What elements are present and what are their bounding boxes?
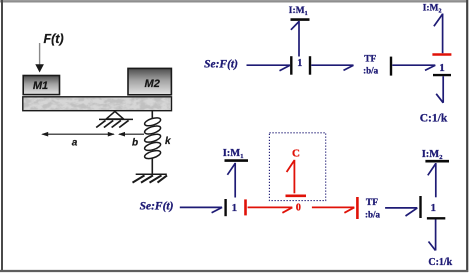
svg-text:k: k [165,136,171,147]
half-arrow on TF bond [344,65,354,70]
svg-text:M2: M2 [145,78,160,90]
svg-text:C:1/k: C:1/k [420,112,448,124]
causal stroke left of 1-junction [224,199,226,216]
half-arrow on Se bond [280,65,291,71]
half-arrow on I:M2 bond [428,164,436,176]
spring top rod [151,111,153,119]
mass M1 box [23,76,59,95]
svg-text:F(t): F(t) [44,32,64,46]
bond 1-junction to TF [311,64,353,66]
red bond 0 to TF [312,206,354,208]
pivot hatching [96,120,128,127]
half-arrow on C bond [429,242,436,251]
svg-text:TF: TF [366,198,378,208]
svg-text:1: 1 [431,202,437,214]
svg-text:TF: TF [364,54,376,64]
svg-text:b: b [132,138,138,149]
half-arrow on I:M1 bond [227,163,235,175]
pivot base line [99,118,133,120]
svg-text:Se:F(t): Se:F(t) [140,201,174,213]
causal stroke above C bond [433,74,451,76]
svg-text::b/a: :b/a [363,66,379,76]
bond TF to right 1-junction [392,64,435,66]
force arrow F(t) head [35,64,44,72]
red half-arrow on bond to 0 [282,207,292,212]
bond right 1 up to I:M2 [435,163,437,197]
causal stroke above C bond [427,217,445,219]
red half-arrow on C bond [287,160,295,172]
bond right 1 up to I:M2 [442,14,444,54]
spring bottom rod [151,159,153,174]
bond 1-junction up to I:M1 [234,163,236,198]
svg-text:0: 0 [296,202,301,213]
mass M2 box [128,68,171,94]
half-arrow on I:M1 bond [291,22,299,30]
svg-text:C: C [292,147,300,159]
bond right 1 down to C [435,219,437,250]
beam marble texture [24,98,171,110]
svg-text::b/a: :b/a [365,210,381,220]
half-arrow on bond to right 1 [406,208,418,216]
red bond 1 to 0-junction [248,206,293,208]
svg-text:1: 1 [439,62,445,74]
bond right 1 down to C [442,76,444,103]
causal stroke under I:M2 [425,160,449,163]
half-arrow on Se bond [212,207,223,212]
bond Se to 1-junction [180,206,222,208]
half-arrow on bond to right 1 [425,65,435,70]
svg-text:1: 1 [297,58,302,69]
svg-text:Se:F(t): Se:F(t) [204,58,238,70]
dimension arrow b [118,132,144,137]
causal stroke right of TF [390,57,392,76]
red causal stroke right of 1-junction [244,199,247,215]
causal stroke left of right 1-junction [419,196,421,218]
red half-arrow on bond to TF [344,207,354,212]
causal stroke left of 1-junction [290,56,292,74]
ground hatching [133,175,168,182]
svg-text:C:1/k: C:1/k [428,257,452,268]
bond 1-junction up to I:M1 [298,21,300,57]
red causal stroke of C bond [286,195,307,198]
dimension arrow a [41,132,115,137]
spring coil k [144,116,162,160]
causal stroke right of 1-junction [309,56,311,74]
bond Se to 1-junction [247,64,291,66]
lever beam [23,97,172,111]
force arrow F(t) shaft [39,43,41,66]
svg-text:1: 1 [232,202,238,214]
dotted highlight box [269,133,325,201]
red bond 0 up to C [293,160,295,194]
half-arrow on C bond [436,94,443,103]
svg-text:M1: M1 [33,80,48,92]
half-arrow on I:M2 bond [434,14,443,26]
causal stroke under I:M1 [225,159,249,162]
red differential causal stroke [432,53,451,56]
red causal stroke left of TF [356,197,359,219]
bond TF to right 1-junction [385,207,417,209]
pivot triangle [106,111,123,119]
svg-text:a: a [72,137,78,148]
causal stroke under I:M1 [291,18,310,21]
ground line [136,173,167,175]
